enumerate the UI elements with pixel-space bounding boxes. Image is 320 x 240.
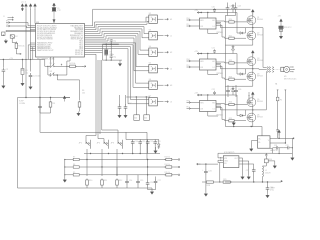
divider resistor R29 (213, 181, 223, 183)
wire common vertical (64, 160, 66, 179)
svg-text:R12: R12 (119, 180, 122, 182)
wire RB4 to opto3 pin1 (85, 31, 149, 50)
power flag VDD4 (34, 4, 37, 10)
svg-text:L1: L1 (170, 36, 172, 38)
gate resistor R24 (225, 103, 229, 105)
capacitor row C13 (154, 139, 156, 142)
svg-text:R24: R24 (229, 102, 232, 104)
svg-text:R7: R7 (73, 157, 75, 159)
gate resistor R25 (225, 120, 229, 122)
bootstrap diode D8 (232, 87, 235, 96)
bulk capacitor C24 (235, 3, 237, 6)
electrolytic capacitor C31 (205, 164, 207, 169)
svg-text:C4 100n: C4 100n (33, 76, 41, 78)
wire IC4 left pin to ground (251, 141, 257, 147)
wire RB6 to opto4 pin1 (85, 36, 149, 67)
power flag drain Q3 (252, 54, 254, 57)
opto U4 (149, 48, 158, 56)
opto U2 (149, 15, 158, 23)
svg-text:R20: R20 (229, 19, 232, 21)
pin arrow from U3 (157, 35, 163, 37)
electrolytic capacitor C30 (267, 182, 269, 186)
component D1 box (10, 35, 14, 38)
transistor Q6 (low side phase 3) (247, 113, 256, 122)
power flag drain Q1 (252, 13, 254, 16)
svg-text:R21: R21 (229, 35, 232, 37)
transistor Q4 (low side phase 2) (247, 72, 256, 81)
svg-text:10k: 10k (144, 118, 147, 120)
ground 1 under regulator (241, 175, 244, 179)
opto U3 (149, 32, 158, 40)
svg-text:4MHz: 4MHz (109, 54, 114, 56)
pin arrow out 1 (173, 159, 178, 161)
capacitor C21 on rail 2 (213, 49, 216, 53)
capacitor C2 (2, 60, 4, 68)
wire with down arrow into U1 top (53, 12, 55, 23)
net arrow right sense out (292, 138, 294, 140)
bootstrap diode D6 (232, 45, 235, 54)
wire phase1 node to left and motor bus (246, 28, 264, 68)
svg-text:R25: R25 (229, 118, 232, 120)
wire phase2 node to motor (246, 68, 267, 71)
power flag sense divider (280, 19, 283, 25)
wire bottom output rail (225, 181, 281, 183)
wire RA pins to rail (28, 45, 33, 60)
ground at end of loop (150, 190, 153, 194)
capacitor row C12 (147, 139, 149, 142)
svg-text:15p: 15p (113, 40, 116, 42)
wire RB1 to opto1 pin2 (85, 21, 149, 29)
svg-text:J1: J1 (3, 16, 5, 18)
net flag up-right at end of rail (281, 180, 283, 182)
svg-text:10k: 10k (82, 92, 85, 94)
net arrow input (197, 163, 201, 165)
svg-text:C12: C12 (150, 141, 153, 143)
wire rail 3 (197, 94, 237, 96)
switch SW3 (118, 140, 123, 149)
wire RB5 to opto3 pin2 (85, 34, 149, 55)
svg-text:IN-: IN- (258, 142, 261, 144)
resistor R13 (164, 158, 173, 160)
svg-text:ACS712: ACS712 (271, 149, 278, 152)
ground top of RC block (154, 149, 157, 153)
svg-text:H3: H3 (170, 85, 172, 87)
regulator output wires down (239, 158, 254, 175)
connector chevrons (267, 67, 274, 73)
wire Q1 source to Q2 drain, phase node 1 (252, 25, 254, 32)
U1 bottom pin stubs (50, 57, 70, 66)
ground under C2 (2, 74, 4, 84)
transistor Q3 (high side phase 2) (247, 57, 256, 66)
IC4 right pins (270, 138, 292, 148)
vertical bus left of RC (147, 160, 149, 181)
wire RD3 to opto6 pin1 (85, 47, 149, 100)
U1 left pin stubs (30, 26, 36, 51)
opto U5 (149, 65, 158, 73)
resistor network RN1 (134, 115, 140, 121)
divider resistor R28 (202, 181, 206, 183)
wire osc bottom (103, 59, 123, 61)
gate resistor R22 (225, 62, 229, 64)
svg-text:10k: 10k (134, 118, 137, 120)
wire +5V rail (0, 59, 40, 61)
svg-text:IN+: IN+ (258, 139, 261, 141)
power flag VDD2 (25, 4, 28, 10)
U1 right column pin names (70, 24, 84, 56)
svg-text:U7: U7 (149, 96, 151, 98)
transistor Q1 (high side phase 1) (247, 16, 256, 25)
wire from rail to buttons (40, 60, 80, 80)
bootstrap diode D7 phase2 (238, 73, 244, 75)
capacitor C15 bottom (137, 175, 139, 179)
svg-text:F2: F2 (280, 100, 282, 102)
capacitor C5 below ICSP rail (39, 97, 40, 98)
wire RD2 to opto5 pin2 (85, 45, 149, 88)
wire D10 bottom to inductor (263, 163, 267, 166)
wire and ground under R26 (280, 29, 282, 35)
wire RD6 (85, 51, 103, 53)
wire rail 2 (197, 53, 237, 55)
pin arrow out 2 (173, 166, 178, 168)
wire VCC pin up (207, 54, 209, 60)
switch SW2 (104, 140, 109, 149)
pullup resistor R12 (116, 167, 118, 176)
svg-text:R13 1k: R13 1k (165, 157, 171, 159)
net arrow into RC1 (6, 25, 10, 27)
wire horizontal y=153.5 (84, 153, 160, 155)
net flag at right end of ICSP rail (64, 97, 70, 99)
wire VCC pin up (207, 95, 209, 101)
svg-text:C29: C29 (246, 170, 249, 172)
capacitor row C10 (132, 139, 134, 142)
svg-text:C25: C25 (230, 89, 233, 91)
ground under J2 (4, 39, 7, 43)
svg-text:IRFZ44: IRFZ44 (257, 116, 263, 118)
svg-text:C20: C20 (212, 7, 215, 9)
wire Q4 source down (225, 81, 252, 86)
svg-text:C17: C17 (158, 180, 161, 182)
wire Q5 source to Q6 drain, phase node 3 (252, 107, 254, 114)
svg-text:C15: C15 (140, 180, 143, 182)
ground under C3 (22, 75, 24, 82)
sense feedback wire B (284, 90, 286, 91)
push button S1 (48, 64, 56, 68)
wire COM pin down (208, 112, 218, 117)
ground under C30 (266, 194, 269, 198)
small parts row mid (248, 92, 250, 100)
resistor R9 (65, 174, 73, 176)
net arrow right at bottom of R3 (16, 50, 21, 55)
svg-text:U4: U4 (149, 46, 151, 48)
wire big left loop (18, 98, 153, 191)
wire RD5 (85, 50, 103, 52)
resistor R26 (dark) (280, 25, 282, 27)
svg-text:C23: C23 (230, 6, 233, 8)
svg-text:C16: C16 (150, 182, 153, 184)
ground arrow below VDD1 (21, 9, 23, 12)
wire top right feed (126, 97, 150, 103)
svg-text:R15 1k: R15 1k (165, 172, 171, 174)
wire fan row 1 (40, 60, 147, 160)
wire ICSP rail y=97.5 (18, 97, 71, 99)
svg-text:RD7/P1D: RD7/P1D (75, 54, 84, 56)
pin arrow from U5 (157, 68, 163, 70)
wire VDD4 down to MCU top (34, 9, 36, 24)
net arrow into RC0 (6, 22, 10, 24)
svg-text:C26: C26 (238, 89, 241, 91)
ground under C4 (30, 79, 32, 85)
inductor L1 (262, 165, 264, 167)
wire RB0 to opto1 pin1 (85, 17, 149, 28)
op-amp U1 microcontroller box (36, 24, 85, 58)
svg-text:H1: H1 (170, 19, 172, 21)
switch SW1 (86, 140, 91, 149)
svg-text:IRFZ44: IRFZ44 (257, 60, 263, 62)
bootstrap diode D9 phase3 (238, 114, 244, 116)
wire VDD3 down to +5V rail (30, 9, 32, 60)
gate resistor R23 (225, 78, 229, 80)
ground 2 under regulator (248, 165, 250, 176)
net arrow left rail 2 (197, 53, 201, 55)
resistor R7 (65, 159, 73, 161)
bootstrap diode D5 phase1 (238, 32, 244, 34)
junction (3, 59, 4, 60)
wire left horizontals into MCU (6, 31, 36, 32)
opto U6 (149, 81, 158, 89)
power flag on sense output (278, 133, 280, 138)
svg-text:15p: 15p (113, 57, 116, 59)
svg-text:10u: 10u (25, 72, 28, 74)
svg-text:C11: C11 (142, 141, 145, 143)
pin arrow from U2 (157, 18, 163, 20)
svg-text:C29: C29 (286, 145, 289, 147)
svg-text:100uH: 100uH (265, 172, 271, 174)
connector pins right (290, 67, 294, 72)
switch drop wires (87, 149, 117, 175)
svg-text:R23: R23 (229, 76, 232, 78)
capacitor C20 on rail 1 (213, 8, 216, 12)
load capacitor Cosc2 below (110, 44, 113, 60)
resistor R3 vertical (15, 42, 18, 50)
crystal Y1 (52, 5, 56, 12)
driver3 output wires (216, 104, 246, 121)
ground sense filter (291, 156, 294, 160)
pin arrow from U6 (157, 84, 163, 86)
wire RB2 to opto2 pin1 (85, 27, 149, 34)
svg-text:IRFZ44: IRFZ44 (257, 19, 263, 21)
wire Q2 source down to sense bus (225, 40, 252, 45)
ground under C31 (204, 192, 207, 196)
wire osc top (103, 43, 119, 45)
svg-text:U5: U5 (149, 63, 151, 65)
wire low-side source bus (225, 14, 235, 127)
push button S2 (48, 72, 56, 76)
diode D3 vertical (158, 140, 161, 150)
wire phase1 to chevrons (263, 66, 267, 68)
net arrow pair far left (8, 17, 14, 21)
gate driver IC2 (200, 59, 217, 70)
dotted link (275, 68, 281, 70)
capacitor C29 (253, 165, 255, 168)
resistor R14 (164, 166, 173, 168)
capacitor C17 bottom (155, 177, 157, 180)
wire Q6 source down to sense (225, 122, 252, 127)
pin arrow out 3 (173, 174, 178, 176)
wire top bus (85, 9, 251, 26)
wire bus from MCU bottom to switch rows (96, 60, 102, 139)
wire VDD2 down to +5V rail (25, 9, 27, 98)
wire fan row 2 (86, 130, 118, 140)
wire three signal rows (84, 160, 165, 175)
svg-text:R9: R9 (73, 172, 75, 174)
wire sense to IC4 (251, 127, 262, 136)
wire Q3 source to Q4 drain, phase node 2 (252, 66, 254, 73)
svg-text:U3: U3 (149, 30, 151, 32)
svg-text:R8: R8 (73, 164, 75, 166)
wire sense filter bottom (273, 138, 293, 156)
bootstrap diode D4 (232, 4, 235, 13)
capacitor row C11 (139, 139, 141, 142)
opto U7 (149, 98, 158, 106)
wire phase3 node to motor bus (246, 72, 267, 110)
gate resistor R20 (225, 21, 229, 23)
wire caps top tie (126, 132, 159, 139)
svg-text:RA4/T0CKI/C1OUT: RA4/T0CKI/C1OUT (37, 49, 54, 52)
power flag VDD1 (21, 4, 24, 10)
connector J2 (2, 32, 5, 35)
transistor Q2 (low side phase 1) (247, 31, 256, 40)
svg-text:U6: U6 (149, 79, 151, 81)
wire osc left vertical (102, 44, 104, 60)
motor connector M1 circle (284, 66, 290, 72)
wire FB down (219, 163, 221, 183)
svg-text:L2: L2 (170, 69, 172, 71)
svg-text:C28: C28 (274, 145, 277, 147)
capacitor C7 vertical x=125.5 (125, 95, 127, 105)
svg-text:470u: 470u (270, 189, 274, 191)
crystal X1 (104, 44, 108, 60)
svg-text:R22: R22 (229, 60, 232, 62)
gate resistor R21 (225, 37, 229, 39)
capacitor C14 bottom (126, 175, 128, 179)
svg-text:C22: C22 (212, 89, 215, 91)
svg-text:R3 10k: R3 10k (18, 46, 24, 48)
capacitor C16 (146, 181, 150, 187)
resistor R15 (164, 174, 173, 176)
capacitor C4 (30, 60, 32, 72)
pullup resistor R10 (86, 160, 88, 177)
svg-text:H2: H2 (170, 52, 172, 54)
capacitor C6 vertical x=119.5 (119, 95, 121, 105)
U1 left column pin names (37, 25, 57, 52)
driver1 output wires (216, 21, 246, 38)
wire VCC pin up (207, 13, 209, 19)
resistor network RN2 (144, 115, 150, 121)
filter capacitor C28 horizontal (273, 146, 284, 149)
resistor R6 vertical x=79.5 (79, 80, 81, 100)
current sense IC4 (258, 136, 271, 148)
wire RB3 to opto2 pin2 (85, 29, 149, 38)
driver2 output wires (216, 62, 246, 79)
svg-text:R11: R11 (104, 180, 107, 182)
net arrows beside J2 (1, 35, 4, 36)
resistor R4 horizontal (68, 65, 77, 67)
pin arrow from U7 (157, 101, 163, 103)
schottky diode D10 vertical (265, 153, 267, 159)
power flag drain Q5 (252, 96, 254, 98)
wire input node (197, 163, 219, 165)
svg-text:IRFZ44: IRFZ44 (257, 101, 263, 103)
svg-text:IRFZ44: IRFZ44 (257, 34, 263, 36)
pullup resistor R11 (101, 167, 103, 176)
pin arrow from U4 (157, 51, 163, 53)
svg-text:C21: C21 (212, 48, 215, 50)
wire from D1 down (11, 38, 13, 42)
ground on sense bus (233, 126, 234, 127)
regulator IC5 (223, 156, 239, 168)
svg-text:RC7/RX/DT/SEG8: RC7/RX/DT/SEG8 (37, 39, 53, 41)
junction dots osc (106, 44, 107, 45)
wire RD7 (85, 54, 97, 60)
filter capacitor C29b horizontal (284, 146, 293, 149)
wire COM pin down (208, 70, 218, 75)
inline box on wire A (276, 97, 279, 101)
junction (22, 59, 23, 60)
svg-text:C24: C24 (238, 6, 241, 8)
resistor R8 (65, 166, 73, 168)
svg-text:R26 NTC: R26 NTC (284, 27, 292, 29)
gate driver IC1 (200, 18, 217, 29)
svg-text:R28: R28 (207, 185, 210, 187)
wire RD4 to opto6 pin2 (85, 49, 149, 104)
svg-text:R14 1k: R14 1k (165, 164, 171, 166)
svg-text:L3: L3 (170, 102, 172, 104)
power flag above crystal Y1 (53, 3, 56, 9)
wire top feed y=152 (218, 153, 273, 162)
wire COM pin down (208, 29, 218, 34)
svg-text:a b c d: a b c d (21, 2, 26, 4)
svg-text:C27: C27 (251, 96, 254, 98)
junction + wire up (25, 97, 26, 98)
capacitor C3 electrolytic (22, 60, 24, 69)
svg-text:IC5 LM2575: IC5 LM2575 (224, 152, 234, 154)
load capacitor Cosc1 above (110, 39, 113, 44)
svg-text:C31: C31 (208, 171, 211, 173)
svg-text:U2: U2 (149, 13, 151, 15)
decoupling capacitor C25 (227, 85, 229, 88)
wire rail 1 (197, 12, 237, 14)
wire D10 to ground (268, 161, 275, 164)
ground under R6 (79, 109, 81, 112)
bulk capacitor C23 (227, 3, 229, 6)
gate driver IC3 (200, 101, 217, 112)
resistor R5 vertical (50, 97, 51, 98)
svg-text:IRFZ44: IRFZ44 (257, 75, 263, 77)
junctions on signal rows (86, 159, 87, 160)
svg-text:CONN: CONN (19, 103, 25, 105)
power flag VDD3 (29, 4, 32, 10)
wire (21, 7, 23, 10)
wire RD1 to opto5 pin1 (85, 43, 149, 83)
svg-text:R29: R29 (223, 179, 226, 181)
motor connector M1 box (281, 67, 284, 71)
svg-text:MOTOR_BLDC: MOTOR_BLDC (284, 78, 297, 80)
junction dots on 153.5 (90, 153, 91, 154)
capacitor C22 on rail 3 (213, 91, 216, 95)
net arrow left rail 3 (197, 94, 201, 96)
svg-text:R10: R10 (89, 180, 92, 182)
wire RB7 to opto4 pin2 (85, 38, 149, 71)
